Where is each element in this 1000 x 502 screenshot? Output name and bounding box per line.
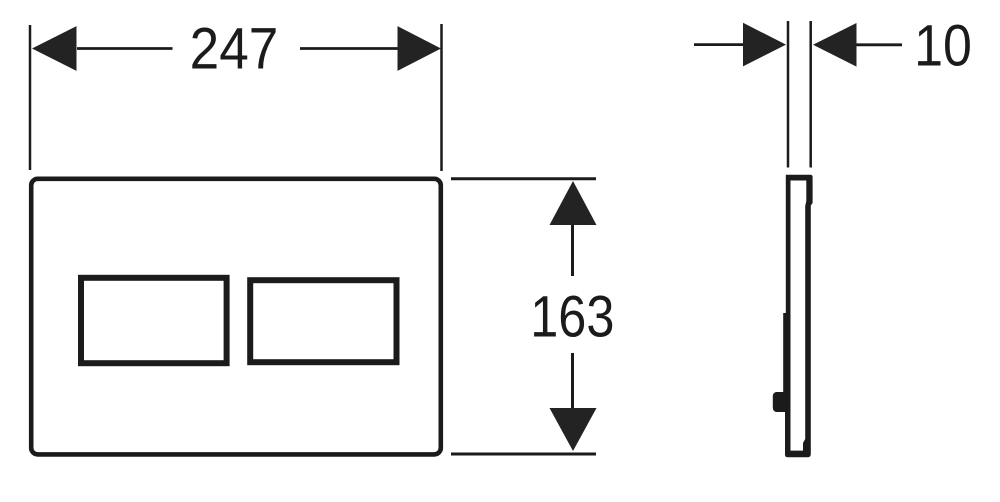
svg-text:10: 10 xyxy=(914,13,972,78)
svg-text:163: 163 xyxy=(530,284,614,349)
svg-text:247: 247 xyxy=(190,16,279,81)
